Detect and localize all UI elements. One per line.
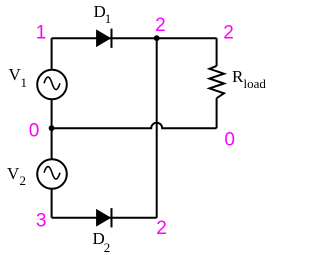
svg-text:1: 1 <box>21 75 28 90</box>
wire center vertical (node 2 to node 2 bottom) <box>156 38 158 218</box>
svg-text:2: 2 <box>104 240 111 255</box>
svg-text:2: 2 <box>20 173 27 188</box>
wire Rload to node 0 right <box>216 98 218 128</box>
svg-text:3: 3 <box>36 210 47 231</box>
svg-text:0: 0 <box>29 120 40 141</box>
wire bottom horizontal (node 3 to node 2) <box>52 217 157 219</box>
V1 sine wave <box>44 77 60 90</box>
svg-text:2: 2 <box>156 218 167 239</box>
svg-text:R: R <box>232 67 244 86</box>
svg-text:1: 1 <box>105 11 112 26</box>
wire left rail upper (node 1 to V1) <box>51 38 53 70</box>
junction dot node 0 left <box>49 125 55 131</box>
voltage source V2 circle <box>37 159 67 189</box>
svg-text:2: 2 <box>223 23 234 44</box>
resistor Rload zigzag <box>210 66 225 98</box>
diode D1 cathode bar <box>111 29 113 48</box>
wire middle horizontal with hop over center wire <box>52 123 217 128</box>
wire V1 to node 0 <box>51 99 53 128</box>
voltage source V1 circle <box>37 70 67 100</box>
svg-text:load: load <box>244 76 267 91</box>
svg-text:0: 0 <box>224 129 235 150</box>
wire V2 to node 3 <box>51 189 53 218</box>
svg-text:1: 1 <box>36 22 47 43</box>
diode D2 triangle <box>97 210 111 226</box>
svg-text:2: 2 <box>155 15 166 36</box>
junction dot node 2 top <box>154 35 160 41</box>
diode D2 cathode bar <box>111 208 113 227</box>
wire right rail upper (node 2 to Rload) <box>216 38 218 66</box>
wire top horizontal (node 1 to node 2) <box>52 37 217 39</box>
diode D1 triangle <box>97 30 111 46</box>
wire node 0 to V2 <box>51 128 53 159</box>
V2 sine wave <box>44 167 60 180</box>
svg-text:V: V <box>7 164 20 183</box>
